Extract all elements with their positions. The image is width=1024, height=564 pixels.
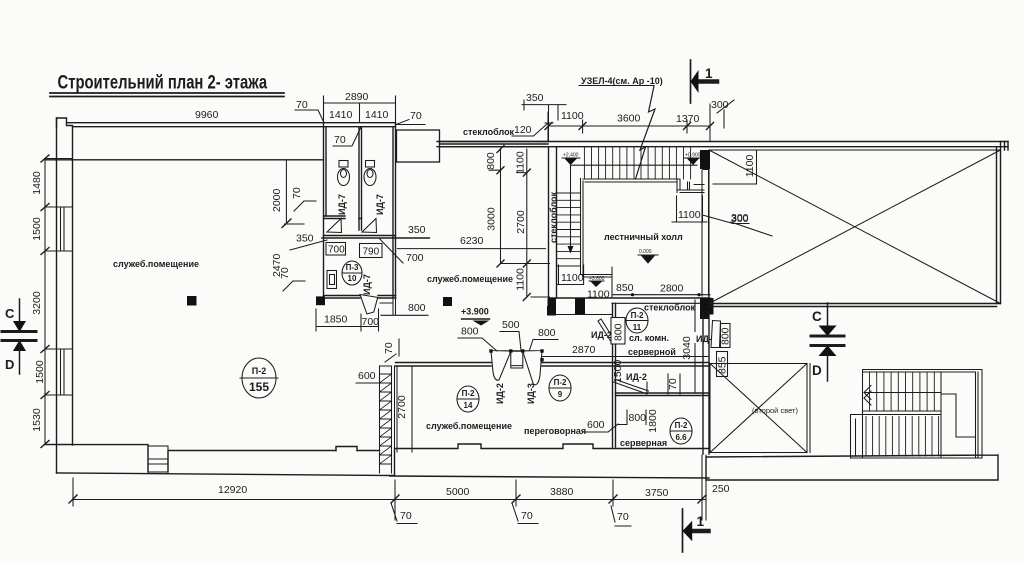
dim 800 leader	[380, 298, 428, 315]
svg-text:800: 800	[461, 326, 479, 338]
dim row 5000 3880 3750 250	[395, 455, 730, 520]
middle room label служеб.помещение	[427, 274, 513, 284]
room label переговорная	[524, 426, 586, 436]
left room top interior line	[45, 159, 324, 161]
left wall bay divisions	[45, 159, 73, 445]
elevation +3.600 small	[589, 276, 605, 287]
svg-text:служеб.помещение: служеб.помещение	[427, 274, 513, 284]
dim 70 leader bottom 3	[611, 506, 631, 526]
svg-text:9960: 9960	[195, 109, 219, 121]
svg-text:1500: 1500	[612, 359, 624, 383]
black wall block right of upper flight	[703, 153, 709, 171]
title underline double	[50, 93, 284, 97]
dim 70 inside WC leader	[333, 127, 361, 146]
dim 70 top left of wall	[383, 339, 399, 362]
wall сл.комн/серверная	[616, 393, 710, 396]
lower flight treads	[866, 417, 939, 457]
lower stall: stamp П-3/10	[342, 261, 362, 285]
dim 350 leader	[290, 240, 327, 250]
svg-text:ИД-7: ИД-7	[362, 274, 372, 295]
window wall hatched column left of П-2/14	[380, 366, 398, 473]
svg-text:ИД-7: ИД-7	[375, 194, 385, 215]
svg-text:ИД-7: ИД-7	[337, 194, 347, 215]
label сл. комн. серверной	[628, 333, 676, 357]
svg-text:2000: 2000	[271, 188, 283, 212]
dim 3040	[681, 300, 695, 393]
svg-text:12920: 12920	[218, 484, 247, 496]
stair upper flight treads	[870, 372, 935, 411]
svg-text:сл. комн.: сл. комн.	[629, 333, 669, 343]
svg-text:70: 70	[383, 342, 395, 354]
stamp П-2/11	[626, 308, 648, 333]
svg-text:800: 800	[538, 327, 556, 339]
svg-text:1530: 1530	[31, 408, 43, 432]
svg-text:2870: 2870	[572, 344, 596, 356]
svg-text:2800: 2800	[660, 283, 684, 295]
stamp П-2/6.6	[670, 418, 692, 444]
door label ИД-7 right stall	[375, 194, 385, 215]
svg-text:155: 155	[249, 380, 269, 394]
top dims over stair 1100 3600 1370	[545, 104, 714, 141]
dim 2470 left of WC	[271, 253, 283, 277]
svg-text:2700: 2700	[396, 395, 408, 419]
svg-text:790: 790	[363, 247, 380, 258]
left dim ticks	[41, 155, 49, 448]
dim 70 leader bottom 2	[512, 503, 538, 524]
column black square mid-right	[547, 306, 556, 316]
glassblock corridor wall triple lines	[440, 142, 549, 147]
elevation 0.000 hall	[638, 249, 658, 263]
svg-text:500: 500	[502, 319, 520, 331]
door right side leaf	[711, 321, 721, 348]
left outer wall verticals	[57, 118, 73, 473]
dim 2000 extension	[271, 160, 304, 228]
dim 300 leader hall	[731, 213, 749, 225]
svg-text:70: 70	[291, 187, 303, 199]
svg-text:350: 350	[296, 233, 314, 245]
door ИД-2 left (сл.комн) leaf	[598, 319, 616, 344]
svg-text:350: 350	[526, 92, 544, 104]
left wall window lines bay2	[61, 207, 65, 251]
svg-text:лестничный холл: лестничный холл	[604, 232, 683, 242]
svg-text:П-2: П-2	[631, 311, 644, 320]
WC bottom wall	[324, 296, 396, 299]
svg-text:10: 10	[348, 274, 357, 283]
dim 70 rot	[667, 374, 680, 394]
mid vertical dim 800/3000	[485, 146, 550, 268]
svg-text:служеб.помещение: служеб.помещение	[426, 421, 512, 431]
svg-text:70: 70	[400, 510, 412, 522]
bottom outer wall left room	[44, 445, 394, 476]
bottom wall bump	[336, 447, 357, 451]
dim 350 right of WC	[408, 224, 426, 236]
dim 600 переговорная	[583, 419, 618, 432]
dim 1100 box in hall	[672, 196, 749, 224]
svg-text:ИД-2: ИД-2	[626, 372, 647, 382]
hall label лестничный холл	[604, 232, 683, 242]
title: Строительний план 2- этажа	[58, 70, 268, 93]
dim 12920	[69, 478, 399, 520]
X-rect bottom double	[709, 304, 1001, 307]
elevation mark +2.400	[562, 153, 580, 166]
dim 500 over door	[500, 319, 521, 350]
svg-text:850: 850	[616, 282, 634, 294]
toilet left	[338, 161, 350, 186]
svg-text:9: 9	[558, 390, 563, 399]
stamp П-2/155	[240, 358, 278, 398]
stamp П-2/9	[549, 375, 571, 401]
sink lower stall	[327, 271, 337, 289]
dim 70 leader at WC top-left	[295, 99, 324, 123]
svg-text:70: 70	[521, 510, 533, 522]
door label ИД-2 right	[694, 332, 722, 344]
svg-text:250: 250	[712, 483, 730, 495]
dim 600 left	[356, 370, 383, 383]
svg-text:70: 70	[667, 378, 679, 390]
room label служеб.помещение (left)	[113, 259, 199, 269]
dim 850 2800	[612, 267, 710, 298]
bottom platform right	[706, 455, 998, 480]
left wall window lines bay4	[61, 349, 65, 395]
room label служеб.помещение bottom	[426, 421, 512, 431]
svg-text:1100: 1100	[515, 151, 527, 174]
X-rect right wall double	[997, 142, 1009, 304]
svg-text:600: 600	[587, 419, 605, 431]
svg-text:+3.900: +3.900	[461, 307, 489, 317]
svg-text:3750: 3750	[645, 487, 669, 499]
svg-text:C: C	[812, 309, 822, 324]
door label ИД-2	[495, 383, 505, 404]
dim 350 over corridor	[522, 92, 566, 142]
X-rect top right (opening)	[709, 150, 1001, 304]
stair direction line with arrow	[570, 166, 572, 248]
svg-text:800: 800	[485, 152, 497, 170]
svg-text:70: 70	[296, 99, 308, 111]
svg-text:П-2: П-2	[554, 378, 567, 387]
toilet right	[364, 161, 376, 186]
svg-text:(второй свет): (второй свет)	[752, 406, 798, 415]
section marker 1 (bottom)	[683, 509, 709, 552]
stair left flight treads	[557, 193, 581, 266]
dim 70 right of 1410	[396, 110, 426, 125]
glassblock box right of WC	[397, 130, 440, 162]
svg-text:П-2: П-2	[252, 366, 266, 376]
dim 855 rot right	[717, 352, 729, 377]
svg-text:П-3: П-3	[346, 263, 359, 272]
svg-text:серверной: серверной	[628, 347, 676, 357]
svg-text:5000: 5000	[446, 486, 470, 498]
svg-text:D: D	[5, 357, 14, 372]
svg-text:стеклоблок: стеклоблок	[463, 127, 515, 137]
svg-text:6230: 6230	[460, 235, 484, 247]
dim 1100 bottom-left hall	[557, 265, 584, 285]
stair outer box	[863, 370, 983, 459]
mid vertical dim 1100/2700/1100	[515, 149, 550, 301]
svg-text:1410: 1410	[329, 109, 353, 121]
dim 1800 rot	[647, 409, 659, 433]
svg-text:3880: 3880	[550, 486, 574, 498]
stair upper flight treads	[584, 148, 690, 179]
label серверная	[620, 438, 667, 448]
svg-text:300: 300	[731, 212, 749, 224]
stair upper flight boundary / handrail	[571, 164, 698, 166]
svg-text:800: 800	[613, 323, 625, 341]
svg-text:600: 600	[358, 370, 376, 382]
svg-text:700: 700	[328, 245, 345, 256]
partition переговорная/серверная	[613, 303, 616, 447]
stamp П-2/14	[457, 386, 479, 412]
WC stall partition wall lower	[322, 216, 429, 238]
svg-text:14: 14	[464, 401, 473, 410]
dim 300 leader left of X	[731, 212, 772, 236]
svg-text:300: 300	[711, 99, 729, 111]
dim 1100 bracket left of X	[713, 150, 757, 184]
section marker 1 (top)	[691, 60, 718, 103]
stair left narrow box	[851, 415, 983, 459]
svg-text:1370: 1370	[676, 113, 700, 125]
door opening сл.комн bottom leaf	[614, 380, 649, 394]
svg-text:70: 70	[617, 511, 629, 523]
svg-text:800: 800	[720, 327, 732, 345]
svg-text:1100: 1100	[561, 272, 584, 284]
dim 800 box right rot	[720, 324, 732, 348]
dim 70 under 2000	[291, 187, 316, 211]
svg-text:1: 1	[705, 66, 713, 81]
top outer wall right section	[437, 142, 1008, 147]
column (black square) left room	[187, 296, 197, 306]
svg-text:350: 350	[408, 224, 426, 236]
svg-text:П-2: П-2	[462, 389, 475, 398]
WC dim 2890	[324, 91, 396, 122]
dim 70 leader bottom 1	[391, 503, 417, 524]
svg-text:серверная: серверная	[620, 438, 667, 448]
svg-text:П-2: П-2	[675, 421, 688, 430]
black jamb squares WC bottom	[316, 296, 325, 305]
svg-text:1100: 1100	[744, 155, 756, 178]
stair hall inner left border	[581, 179, 612, 278]
section marker C/D right	[811, 303, 844, 381]
double door ИД-2/ИД-3	[489, 349, 543, 384]
WC middle wall	[359, 127, 362, 230]
svg-text:800: 800	[629, 412, 647, 424]
left dim line vertical	[44, 159, 46, 445]
УЗЕЛ-4 callout	[579, 76, 663, 179]
elevation +3.900	[461, 307, 490, 326]
svg-text:70: 70	[410, 110, 422, 122]
серверная right wall	[703, 312, 709, 454]
svg-text:1500: 1500	[34, 360, 46, 384]
svg-text:700: 700	[362, 316, 380, 328]
svg-text:3600: 3600	[617, 113, 641, 125]
bottom rooms top wall	[396, 363, 710, 367]
svg-text:переговорная: переговорная	[524, 426, 586, 436]
svg-text:Строительний план 2- этажа: Строительний план 2- этажа	[58, 70, 268, 93]
black block bottom-left of X-rect	[700, 298, 709, 319]
svg-text:70: 70	[334, 134, 346, 146]
text стеклоблок corridor	[463, 127, 515, 137]
dim 800 left leader	[458, 326, 497, 352]
text стеклоблок vertical	[549, 191, 559, 243]
svg-text:1500: 1500	[31, 217, 43, 241]
dim 350 700 790 700 row	[296, 233, 314, 245]
svg-text:D: D	[812, 363, 822, 378]
bottom wall notch box	[148, 446, 168, 472]
dim 1500 rot	[612, 359, 624, 383]
svg-text:ИД-2: ИД-2	[591, 330, 612, 340]
door leaf left stall	[327, 219, 342, 233]
dim 300 top right	[711, 99, 734, 128]
dim 9960 top	[195, 109, 219, 121]
black block top-left of X-rect	[700, 150, 710, 169]
svg-text:УЗЕЛ-4(см. Ар -10): УЗЕЛ-4(см. Ар -10)	[581, 76, 663, 86]
второй свет X-rect	[710, 364, 810, 453]
dim 790 box	[360, 244, 383, 258]
dim 700 box	[326, 243, 346, 256]
dim 800 box серверная	[618, 410, 646, 425]
svg-text:1480: 1480	[31, 171, 43, 195]
svg-text:70: 70	[279, 267, 291, 279]
svg-text:1: 1	[697, 514, 705, 529]
svg-text:6.6: 6.6	[675, 433, 687, 442]
svg-text:стеклоблок: стеклоблок	[549, 191, 559, 243]
WC dim 1410 1410	[324, 96, 396, 122]
door leaf bottom stall	[360, 295, 378, 315]
svg-text:1800: 1800	[647, 409, 659, 433]
dim 120 leader	[512, 123, 553, 136]
svg-text:служеб.помещение: служеб.помещение	[113, 259, 199, 269]
door label ИД-7 lower stall	[362, 274, 372, 295]
hall right wall	[702, 170, 709, 296]
svg-text:1410: 1410	[365, 109, 389, 121]
dim 800 right leader	[530, 327, 559, 350]
dim 700 leader lower	[406, 252, 424, 264]
dim 1100 lower	[587, 289, 610, 301]
exterior stair bottom right	[851, 370, 983, 459]
bottom rooms bottom wall	[390, 444, 709, 478]
svg-text:0.000: 0.000	[639, 249, 652, 255]
svg-text:ИД-2: ИД-2	[495, 383, 505, 404]
stair hall left wall (glass block)	[549, 147, 557, 298]
svg-text:3040: 3040	[681, 336, 693, 360]
svg-text:11: 11	[633, 323, 642, 332]
svg-text:3200: 3200	[31, 291, 43, 315]
label второй свет	[752, 406, 798, 415]
label ИД-2 lower left	[626, 372, 647, 382]
svg-text:1850: 1850	[324, 314, 348, 326]
svg-text:700: 700	[406, 252, 424, 264]
elevation mark +0.900	[684, 153, 702, 166]
column black square mid	[443, 297, 452, 306]
top-left wall stub	[57, 118, 73, 127]
door label ИД-3	[526, 383, 536, 404]
dim 70 lower	[279, 267, 305, 291]
svg-text:2890: 2890	[345, 91, 369, 103]
svg-text:1100: 1100	[678, 209, 701, 221]
svg-text:3000: 3000	[486, 207, 498, 231]
left dim texts	[31, 171, 46, 432]
section marker C/D left	[2, 299, 36, 374]
dim 2870	[542, 344, 709, 357]
upper flight bottom / mid landing	[851, 372, 976, 458]
svg-text:2700: 2700	[515, 210, 527, 234]
dim 2700 room left	[396, 366, 412, 452]
arrow upper flight	[864, 386, 941, 406]
door label ИД-7 left stall	[337, 194, 347, 215]
dim 800 rot box left	[611, 318, 625, 345]
label ИД-2 left small	[591, 330, 612, 340]
svg-text:120: 120	[514, 124, 532, 136]
text стеклоблок bottom	[644, 303, 696, 313]
svg-text:ИД-3: ИД-3	[526, 383, 536, 404]
dim 1850 700 bottom of WC	[316, 309, 379, 331]
top outer wall (left section, double line)	[67, 123, 396, 127]
svg-text:800: 800	[408, 302, 426, 314]
stair hall bottom wall with black fills	[549, 297, 710, 299]
WC block outer walls	[324, 123, 396, 298]
svg-text:C: C	[5, 306, 15, 321]
svg-text:1100: 1100	[515, 268, 527, 291]
door leaf right stall	[362, 219, 377, 233]
svg-text:стеклоблок: стеклоблок	[644, 303, 696, 313]
svg-text:1100: 1100	[561, 110, 584, 122]
dim 6230	[380, 235, 546, 263]
